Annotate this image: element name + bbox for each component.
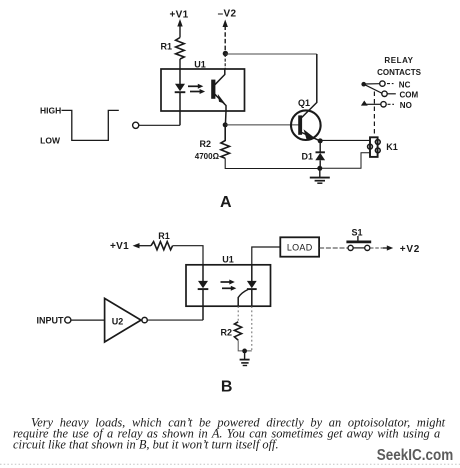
opto U1 light arrow 2 xyxy=(190,89,205,94)
svg-text:+V2: +V2 xyxy=(400,244,420,255)
svg-text:B: B xyxy=(221,378,233,395)
svg-text:U1: U1 xyxy=(222,254,234,264)
svg-text:SeekIC.com: SeekIC.com xyxy=(377,447,454,464)
svg-text:CONTACTS: CONTACTS xyxy=(377,68,422,77)
opto U1 photo-SCR (B) xyxy=(247,265,257,306)
svg-text:4700Ω: 4700Ω xyxy=(195,152,220,161)
terminal COM xyxy=(382,91,419,100)
svg-text:HIGH: HIGH xyxy=(40,105,61,115)
opto U1 phototransistor base bar xyxy=(211,80,215,99)
ground (B) xyxy=(240,351,250,366)
node ground junction dot (B) xyxy=(242,349,247,354)
opto U1 LED anode wire xyxy=(179,69,181,85)
svg-text:S1: S1 xyxy=(351,227,362,237)
LOAD box xyxy=(280,237,319,256)
svg-text:INPUT: INPUT xyxy=(37,316,65,326)
input terminal B xyxy=(65,317,71,323)
inverter U2 xyxy=(105,298,141,342)
wire gate to R2 (B) xyxy=(237,306,239,322)
opto U1 phototransistor emitter xyxy=(215,94,226,125)
optoisolator U1 box (B) xyxy=(186,265,271,306)
input terminal A xyxy=(133,122,139,128)
node emitter junction dot xyxy=(223,122,228,127)
resistor R1 (B) xyxy=(151,242,173,250)
svg-text:R2: R2 xyxy=(220,328,232,338)
wire inverter output to LED cathode xyxy=(147,319,203,321)
svg-text:NC: NC xyxy=(399,80,411,89)
wire S1 to +V2 xyxy=(370,247,384,249)
wire relay coil bottom to ground rail xyxy=(322,153,370,169)
svg-text:Q1: Q1 xyxy=(298,98,310,108)
svg-text:LOW: LOW xyxy=(40,136,61,146)
terminal NC xyxy=(380,80,411,89)
wire SCR anode to LOAD xyxy=(252,247,280,265)
svg-text:R1: R1 xyxy=(158,231,170,241)
inverter U2 bubble xyxy=(142,317,147,322)
svg-text:U1: U1 xyxy=(194,60,206,70)
svg-text:COM: COM xyxy=(400,91,419,100)
svg-text:–V2: –V2 xyxy=(218,8,237,19)
relay contact pivot xyxy=(361,82,366,87)
svg-text:NO: NO xyxy=(400,101,412,110)
opto U1 SCR gate lead (B) xyxy=(238,290,248,307)
opto U1 phototransistor collector xyxy=(215,69,225,85)
supply +V1 arrow xyxy=(177,19,182,38)
svg-text:K1: K1 xyxy=(386,142,398,152)
supply +V2 arrow (B) xyxy=(383,245,393,250)
wire R2 bottom to ground rail xyxy=(225,158,320,168)
relay coil K1 xyxy=(368,137,381,157)
opto U1 LED xyxy=(175,84,186,92)
svg-text:A: A xyxy=(220,194,232,211)
bottom dotted rule xyxy=(0,463,460,465)
opto U1 LED (B) xyxy=(198,265,209,320)
opto U1 LED cathode wire xyxy=(179,92,181,125)
supply +V1 arrow (B) xyxy=(133,243,151,248)
wire -V2 to opto collector xyxy=(224,54,226,70)
svg-text:D1: D1 xyxy=(301,152,313,162)
relay contacts heading xyxy=(377,56,422,77)
svg-text:circuit like that shown in B,: circuit like that shown in B, but it won… xyxy=(13,438,279,452)
terminal NO xyxy=(361,101,412,111)
opto U1 light arrow 2 (B) xyxy=(222,286,236,291)
diode D1 xyxy=(315,141,325,168)
resistor R1 xyxy=(176,38,185,60)
resistor R2 (B) xyxy=(234,322,241,340)
switch S1 xyxy=(346,236,371,250)
svg-text:LOAD: LOAD xyxy=(287,242,313,252)
wire pivot to NC terminal xyxy=(364,83,380,85)
wire R1 to U1 xyxy=(179,59,181,69)
svg-text:+V1: +V1 xyxy=(110,241,129,252)
wire LOAD to S1 xyxy=(319,247,348,249)
wire SCR cathode to junction (B) xyxy=(251,306,253,351)
supply -V2 arrow xyxy=(223,20,228,52)
node -V2 junction dot xyxy=(223,51,228,56)
ground below D1 xyxy=(310,168,330,183)
wire -V2 rail to Q1 collector xyxy=(225,53,316,55)
svg-text:R1: R1 xyxy=(160,42,172,52)
node Q1 emitter junction dot xyxy=(318,138,323,143)
input waveform xyxy=(62,110,119,140)
wire input terminal to LED cathode xyxy=(139,124,180,126)
resistor R2 xyxy=(221,125,230,158)
wire R2 to ground junction (B) xyxy=(238,340,252,351)
svg-text:U2: U2 xyxy=(112,317,124,327)
relay mechanical dashed link xyxy=(373,92,375,138)
node D1 anode junction dot xyxy=(317,166,322,171)
opto U1 light arrow 1 xyxy=(188,84,203,89)
optoisolator U1 box xyxy=(161,69,245,111)
relay contact arm xyxy=(364,84,382,93)
svg-text:+V1: +V1 xyxy=(170,9,189,20)
transistor Q1 xyxy=(291,54,321,141)
svg-text:R2: R2 xyxy=(199,139,211,149)
wire Q1 emitter to relay coil xyxy=(320,139,370,141)
opto U1 light arrow 1 (B) xyxy=(221,280,235,285)
wire R1 to U1 (B) xyxy=(173,246,203,265)
wire emitter to Q1 base xyxy=(225,124,298,126)
svg-text:RELAY: RELAY xyxy=(384,56,413,65)
wire input to inverter xyxy=(71,319,105,321)
